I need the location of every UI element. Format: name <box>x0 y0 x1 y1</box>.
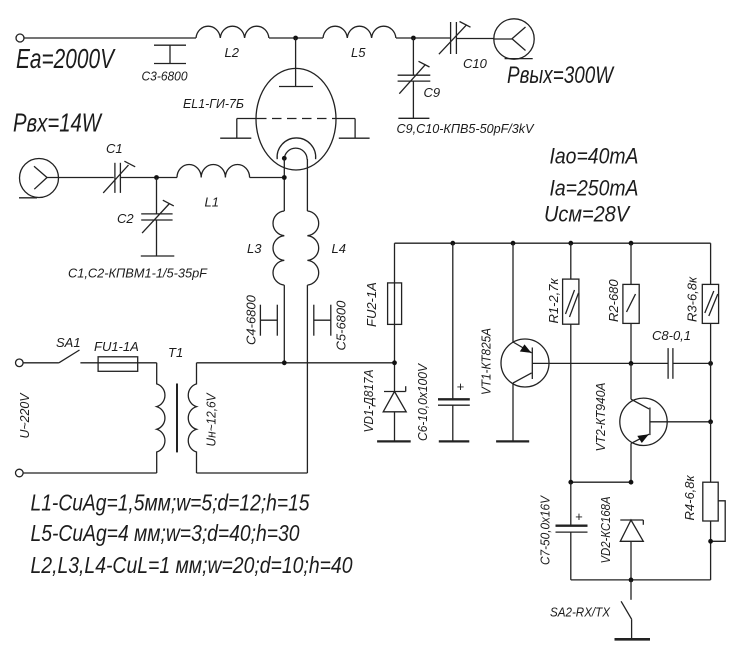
wire <box>47 177 114 179</box>
wire bus to FU2 <box>394 243 396 283</box>
wire <box>138 362 157 364</box>
capacitor C6 electrolytic <box>438 399 470 441</box>
node bus R2 <box>629 241 634 246</box>
svg-text:SA2-RX/TX: SA2-RX/TX <box>550 605 611 620</box>
inductor L1 <box>177 165 250 178</box>
connector XW2 output <box>494 19 534 59</box>
svg-text:U~220V: U~220V <box>17 392 32 438</box>
svg-text:FU2-1A: FU2-1A <box>364 282 379 327</box>
capacitor C9 variable <box>398 38 431 118</box>
wire anode lead <box>295 38 297 87</box>
svg-text:C5-6800: C5-6800 <box>334 300 349 351</box>
svg-text:C9,C10-КПВ5-50pF/3kV: C9,C10-КПВ5-50pF/3kV <box>397 121 535 136</box>
svg-text:L3: L3 <box>247 241 262 256</box>
wire <box>23 362 59 364</box>
node bus C6 <box>450 241 455 246</box>
svg-text:VT1-КТ825А: VT1-КТ825А <box>479 328 494 395</box>
svg-text:L2: L2 <box>225 45 240 60</box>
capacitor C5 <box>314 305 331 336</box>
svg-text:Iao=40mA: Iao=40mA <box>550 144 639 169</box>
svg-text:C8-0,1: C8-0,1 <box>652 328 691 343</box>
tube grid left bracket <box>220 119 251 139</box>
fuse FU1 <box>98 357 138 372</box>
inductor L4 <box>307 211 318 285</box>
transformer T1 primary <box>157 363 165 473</box>
tube cathode outer arc <box>277 138 316 159</box>
switch SA1 <box>59 350 80 363</box>
wire <box>396 37 450 39</box>
svg-text:T1: T1 <box>168 345 183 360</box>
svg-text:L4: L4 <box>332 241 346 256</box>
svg-text:C3-6800: C3-6800 <box>142 69 189 84</box>
capacitor C10 variable <box>439 22 471 55</box>
capacitor C8 <box>668 348 673 379</box>
node C7 rail <box>568 480 573 485</box>
node VT2 base R4 <box>708 419 713 424</box>
svg-text:VT2-КТ940А: VT2-КТ940А <box>593 383 608 452</box>
svg-text:SA1: SA1 <box>56 335 81 350</box>
svg-text:C1: C1 <box>106 141 123 156</box>
wire zener top rail <box>571 481 631 483</box>
resistor R4 <box>703 422 725 580</box>
node R4 tap <box>708 539 713 544</box>
wire cathode right lead <box>306 159 308 211</box>
svg-text:R2-680: R2-680 <box>606 279 621 322</box>
transistor VT1 <box>501 339 549 441</box>
svg-text:R3-6,8к: R3-6,8к <box>685 276 700 322</box>
svg-text:Ea=2000V: Ea=2000V <box>16 43 116 74</box>
svg-text:Uсм=28V: Uсм=28V <box>544 202 631 227</box>
capacitor C3 <box>154 45 186 63</box>
transformer T1 core <box>176 384 178 453</box>
resistor R3 <box>702 243 718 422</box>
svg-text:L5-CuAg=4 мм;w=3;d=40;h=30: L5-CuAg=4 мм;w=3;d=40;h=30 <box>31 520 300 546</box>
ground chassis C6 <box>439 440 470 442</box>
node VD2 rail <box>629 480 634 485</box>
zener diode VD1 <box>383 386 406 441</box>
wire <box>80 362 98 364</box>
svg-text:C1,C2-КПВМ1-1/5-35pF: C1,C2-КПВМ1-1/5-35pF <box>68 266 208 281</box>
svg-text:Uн~12,6V: Uн~12,6V <box>204 392 219 446</box>
wire <box>456 38 494 40</box>
svg-text:L1-CuAg=1,5мм;w=5;d=12;h=15: L1-CuAg=1,5мм;w=5;d=12;h=15 <box>31 490 310 516</box>
svg-text:C6-10,0x100V: C6-10,0x100V <box>415 363 430 441</box>
wire <box>250 177 285 179</box>
wire FU2 to VD1 <box>394 324 396 391</box>
resistor R2 <box>623 243 639 363</box>
svg-text:R1-2,7к: R1-2,7к <box>546 277 561 323</box>
svg-text:R4-6,8к: R4-6,8к <box>682 474 697 520</box>
switch SA2 <box>621 580 632 639</box>
svg-text:L5: L5 <box>351 45 366 60</box>
wire VT2 base <box>650 421 711 423</box>
svg-text:VD1-Д817А: VD1-Д817А <box>361 370 376 433</box>
node secondary FU2 junction <box>392 360 397 365</box>
tube cathode inner arc <box>284 148 307 159</box>
ground chassis VT1 <box>496 440 529 442</box>
svg-text:C4-6800: C4-6800 <box>244 294 259 345</box>
wire bus to C6 <box>452 243 454 399</box>
svg-text:EL1-ГИ-7Б: EL1-ГИ-7Б <box>183 96 245 111</box>
wire cathode left lead <box>283 158 285 211</box>
terminal mains bottom <box>15 469 23 477</box>
terminal mains top <box>15 359 23 367</box>
inductor L5 <box>323 26 396 38</box>
node C9 junction <box>411 36 416 41</box>
svg-text:L2,L3,L4-CuL=1 мм;w=20;d=10;h=: L2,L3,L4-CuL=1 мм;w=20;d=10;h=40 <box>31 552 353 578</box>
wire mains bottom <box>23 472 157 474</box>
tube anode plate <box>279 86 313 88</box>
wire main dc bus <box>395 242 711 244</box>
capacitor C2 variable <box>141 178 175 257</box>
node L1 cathode junction <box>282 175 287 180</box>
node base R3 <box>708 361 713 366</box>
wire secondary bottom <box>197 472 308 474</box>
ground SA2 <box>615 638 651 641</box>
svg-text:VD2-КС168А: VD2-КС168А <box>598 497 613 564</box>
wire VT1 base line <box>532 362 710 364</box>
wire <box>24 37 196 39</box>
svg-text:FU1-1A: FU1-1A <box>94 339 139 354</box>
wire <box>269 37 323 39</box>
wire secondary top bus <box>197 362 395 364</box>
node C2 junction <box>154 175 159 180</box>
fuse FU2 <box>388 283 402 325</box>
transformer T1 secondary <box>188 363 196 473</box>
svg-text:C7-50,0x16V: C7-50,0x16V <box>538 495 553 565</box>
wire L3 to bus <box>283 285 285 363</box>
capacitor C1 variable <box>103 161 135 193</box>
svg-text:Pвх=14W: Pвх=14W <box>13 108 103 138</box>
svg-text:L1: L1 <box>205 195 219 210</box>
terminal X1 Ea <box>16 34 24 42</box>
node L3 bus junction <box>282 360 287 365</box>
ground chassis VD1 <box>377 440 411 442</box>
tube grid dashed <box>237 118 355 120</box>
svg-text:C10: C10 <box>463 56 488 71</box>
connector XW1 input <box>19 159 59 198</box>
wire L4 down <box>306 285 308 473</box>
tube grid right bracket <box>339 119 370 139</box>
zener diode VD2 <box>620 520 643 580</box>
node bus VT1 <box>511 241 516 246</box>
capacitor C4 <box>260 305 277 336</box>
wire <box>120 177 177 179</box>
svg-text:Ia=250mA: Ia=250mA <box>550 176 639 201</box>
capacitor C7 electrolytic <box>556 482 588 580</box>
node anode junction <box>293 36 298 41</box>
node cathode junction <box>282 156 287 161</box>
node SA2 rail <box>629 578 634 583</box>
node base R2 <box>629 361 634 366</box>
vacuum tube EL1 envelope <box>256 68 336 170</box>
inductor L2 <box>196 26 269 38</box>
transistor VT2 <box>620 363 667 482</box>
wire bottom rail <box>571 579 711 581</box>
svg-text:C9: C9 <box>424 85 441 100</box>
svg-text:C2: C2 <box>117 211 134 226</box>
inductor L3 <box>273 211 284 285</box>
resistor R1 <box>563 243 579 482</box>
wire bus to VT1 emitter <box>512 243 514 342</box>
svg-text:+: + <box>575 509 583 524</box>
svg-text:+: + <box>457 379 465 394</box>
node bus R1 <box>568 241 573 246</box>
svg-text:Pвых=300W: Pвых=300W <box>507 62 615 89</box>
